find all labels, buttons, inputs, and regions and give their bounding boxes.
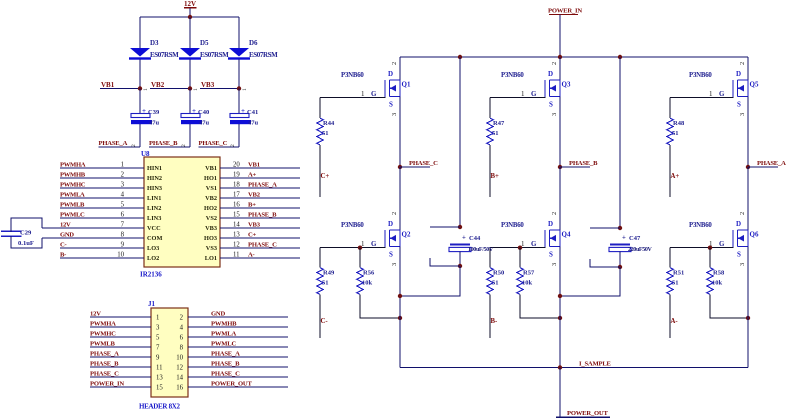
node C47 top junction — [590, 226, 622, 230]
wire — [189, 124, 191, 147]
svg-text:HIN2: HIN2 — [147, 175, 162, 182]
wire — [559, 15, 561, 58]
power port 12V — [184, 0, 197, 8]
svg-text:12V: 12V — [60, 222, 71, 229]
wire — [189, 60, 191, 88]
power port POWER_OUT — [556, 410, 610, 417]
wire source high to phase — [399, 97, 401, 168]
wire — [669, 98, 671, 118]
svg-text:D6: D6 — [249, 39, 258, 47]
svg-text:10: 10 — [176, 355, 183, 362]
wire cap C47 column top — [619, 57, 621, 228]
svg-text:D: D — [736, 220, 741, 228]
resistor R56 10k — [357, 268, 375, 295]
svg-text:8: 8 — [180, 345, 184, 352]
svg-text:PWMLB: PWMLB — [60, 202, 85, 209]
svg-text:C-: C- — [321, 318, 329, 325]
resistor R47 51 — [487, 118, 505, 145]
svg-text:11: 11 — [156, 365, 163, 372]
wire drain high Q1 — [399, 57, 401, 80]
svg-text:G: G — [531, 90, 537, 98]
svg-text:3: 3 — [739, 263, 746, 266]
wire gate high — [490, 97, 546, 99]
svg-text:2: 2 — [230, 144, 236, 147]
wire gate high — [670, 97, 734, 99]
wire — [319, 98, 321, 118]
svg-text:2: 2 — [739, 62, 746, 65]
power port POWER_IN — [548, 8, 582, 15]
node PHASE_C — [199, 140, 240, 147]
svg-text:PWMHC: PWMHC — [90, 331, 116, 338]
svg-text:1: 1 — [242, 88, 248, 91]
svg-text:HEADER 8X2: HEADER 8X2 — [139, 403, 181, 411]
diode D3 — [129, 39, 179, 60]
svg-text:PHASE_A: PHASE_A — [248, 182, 277, 189]
svg-text:11: 11 — [233, 252, 240, 259]
pin 15 net POWER_IN — [90, 381, 163, 392]
svg-text:10k: 10k — [522, 280, 533, 287]
svg-text:P3NB60: P3NB60 — [689, 222, 712, 229]
svg-text:Q1: Q1 — [402, 81, 411, 89]
svg-text:1: 1 — [361, 90, 365, 98]
pin 8 net PWMLC — [180, 341, 288, 352]
svg-text:Q4: Q4 — [562, 231, 571, 239]
svg-text:7: 7 — [156, 345, 160, 352]
svg-text:PHASE_B: PHASE_B — [248, 212, 277, 219]
svg-text:R49: R49 — [323, 270, 335, 277]
wire DC bus rail — [400, 56, 748, 58]
pin 15 VS2 net PHASE_B — [206, 212, 300, 223]
wire 10k to source — [710, 295, 748, 319]
node VB1 — [100, 81, 149, 91]
wire 12V rail — [140, 16, 239, 18]
wire — [319, 295, 321, 339]
wire — [238, 17, 240, 48]
pin 10 net PHASE_A — [176, 351, 288, 362]
svg-text:B+: B+ — [248, 202, 256, 209]
svg-text:LIN3: LIN3 — [147, 215, 161, 222]
pin 16 net POWER_OUT — [176, 381, 288, 392]
svg-text:51: 51 — [672, 130, 679, 137]
svg-text:GND: GND — [211, 311, 225, 318]
resistor R51 51 — [667, 268, 684, 295]
wire C29 to 12V pin — [11, 218, 42, 232]
resistor R57 10k — [517, 268, 535, 295]
wire — [189, 17, 191, 48]
svg-text:G: G — [371, 90, 377, 98]
svg-text:5: 5 — [156, 335, 160, 342]
svg-text:VB3: VB3 — [205, 225, 217, 232]
svg-text:PHASE_C: PHASE_C — [409, 160, 438, 167]
svg-text:2: 2 — [551, 62, 558, 65]
svg-text:B-: B- — [60, 252, 66, 259]
wire — [139, 89, 141, 114]
svg-text:C39: C39 — [148, 109, 160, 116]
svg-text:R51: R51 — [673, 270, 684, 277]
svg-text:+: + — [241, 107, 245, 115]
svg-text:A-: A- — [671, 318, 679, 325]
wire — [319, 248, 321, 268]
node gate low junction — [518, 246, 522, 250]
node VB2 — [150, 81, 199, 91]
svg-text:LO1: LO1 — [205, 255, 217, 262]
resistor R50 51 — [487, 268, 504, 295]
svg-text:12V: 12V — [90, 311, 101, 318]
svg-text:51: 51 — [672, 280, 679, 287]
svg-text:LO3: LO3 — [147, 245, 159, 252]
svg-text:C41: C41 — [247, 109, 258, 116]
pin 5 net PWMHC — [90, 331, 160, 342]
svg-text:1: 1 — [121, 162, 124, 169]
svg-text:D: D — [736, 70, 741, 78]
svg-text:C44: C44 — [469, 235, 481, 242]
pin 3 HIN3 net PWMHC — [60, 182, 162, 193]
svg-text:R57: R57 — [523, 270, 535, 277]
svg-text:PWMHA: PWMHA — [90, 321, 116, 328]
svg-text:B-: B- — [491, 318, 499, 325]
svg-text:P3NB60: P3NB60 — [501, 72, 524, 79]
svg-text:VCC: VCC — [147, 225, 161, 232]
pin 16 HO2 net B+ — [204, 202, 300, 213]
svg-text:P3NB60: P3NB60 — [501, 222, 524, 229]
svg-text:PHASE_A: PHASE_A — [90, 351, 119, 358]
svg-text:G: G — [531, 240, 537, 248]
svg-text:12V: 12V — [184, 0, 196, 8]
wire — [519, 248, 521, 268]
svg-text:R47: R47 — [493, 120, 505, 127]
svg-text:51: 51 — [322, 280, 329, 287]
pin 4 net PWMHB — [180, 321, 288, 332]
capacitor C29 — [1, 230, 34, 248]
svg-text:17: 17 — [233, 192, 240, 199]
svg-text:D3: D3 — [150, 39, 159, 47]
node gate low junction — [708, 246, 712, 250]
svg-text:U8: U8 — [141, 150, 150, 158]
svg-text:R48: R48 — [673, 120, 685, 127]
wire gate low — [320, 247, 386, 249]
wire — [669, 145, 671, 197]
svg-text:R58: R58 — [713, 270, 725, 277]
svg-text:1: 1 — [193, 88, 199, 91]
capacitor C39 — [131, 107, 160, 127]
svg-text:18: 18 — [233, 182, 240, 189]
svg-text:PWMHC: PWMHC — [60, 182, 86, 189]
svg-text:PHASE_C: PHASE_C — [211, 371, 240, 378]
node bus j2 — [558, 55, 562, 59]
pin 14 VB3 net VB3 — [205, 222, 300, 233]
resistor R49 51 — [317, 268, 335, 295]
svg-text:VS3: VS3 — [206, 245, 217, 252]
svg-text:9: 9 — [121, 242, 125, 249]
svg-text:2: 2 — [551, 212, 558, 215]
svg-text:HO3: HO3 — [204, 235, 217, 242]
svg-text:LIN1: LIN1 — [147, 195, 161, 202]
svg-text:S: S — [549, 251, 553, 259]
wire — [669, 248, 671, 268]
svg-text:VS1: VS1 — [206, 185, 217, 192]
transistor Q6 — [689, 212, 759, 266]
pin 7 net PWMLB — [90, 341, 160, 352]
svg-text:C40: C40 — [198, 109, 209, 116]
svg-text:15: 15 — [233, 212, 240, 219]
svg-text:3: 3 — [739, 113, 746, 116]
wire phase to drain low — [399, 167, 401, 230]
pin 11 net PHASE_B — [90, 361, 163, 372]
svg-text:C29: C29 — [20, 230, 32, 237]
wire C47 bottom to Q4 source — [560, 267, 620, 296]
svg-text:S: S — [389, 251, 393, 259]
wire gate low — [490, 247, 546, 249]
svg-text:PWMHA: PWMHA — [60, 162, 86, 169]
svg-text:1: 1 — [156, 315, 159, 322]
svg-text:3: 3 — [391, 113, 398, 116]
svg-text:D: D — [388, 70, 393, 78]
transistor Q5 — [689, 62, 759, 116]
svg-text:A+: A+ — [671, 173, 680, 180]
svg-text:PWMLC: PWMLC — [60, 212, 85, 219]
node — [558, 294, 562, 298]
svg-text:VS2: VS2 — [206, 215, 217, 222]
svg-text:C47: C47 — [629, 235, 641, 242]
svg-text:P3NB60: P3NB60 — [341, 222, 364, 229]
svg-text:100uF/50V: 100uF/50V — [468, 247, 494, 253]
svg-text:3: 3 — [121, 182, 125, 189]
svg-text:LIN2: LIN2 — [147, 205, 161, 212]
node PHASE_A — [99, 140, 141, 147]
op-amp U1 driver IC U8 body — [140, 150, 220, 279]
svg-text:P3NB60: P3NB60 — [689, 72, 712, 79]
svg-text:9: 9 — [156, 355, 160, 362]
svg-text:10: 10 — [117, 252, 124, 259]
pin 8 COM net GND — [42, 232, 162, 243]
node bus j1 — [458, 55, 462, 59]
pin 11 LO1 net A- — [205, 252, 300, 263]
svg-text:B+: B+ — [491, 173, 500, 180]
svg-text:3: 3 — [551, 263, 558, 266]
svg-text:2: 2 — [180, 315, 184, 322]
svg-text:A+: A+ — [248, 172, 257, 179]
svg-text:ES07RSM: ES07RSM — [200, 51, 229, 59]
svg-text:C+: C+ — [321, 173, 330, 180]
resistor R58 10k — [707, 268, 725, 295]
wire source high to phase — [747, 97, 749, 168]
node source junction — [558, 316, 562, 320]
pin 9 net PHASE_A — [90, 351, 160, 362]
svg-text:15: 15 — [156, 385, 163, 392]
svg-text:VB1: VB1 — [101, 81, 115, 89]
wire — [238, 60, 240, 88]
pin 13 net PHASE_C — [90, 371, 163, 382]
svg-text:10k: 10k — [362, 280, 373, 287]
wire phase to drain low — [747, 167, 749, 230]
wire C29 to GND pin — [11, 236, 42, 248]
node source junction — [746, 316, 750, 320]
svg-text:PHASE_A: PHASE_A — [757, 160, 786, 167]
svg-text:2: 2 — [121, 172, 125, 179]
pin 19 HO1 net A+ — [204, 172, 300, 183]
svg-text:HO1: HO1 — [204, 175, 217, 182]
svg-text:0.1uF: 0.1uF — [18, 240, 34, 247]
svg-text:POWER_OUT: POWER_OUT — [567, 410, 608, 417]
resistor R48 51 — [667, 118, 685, 145]
svg-text:1: 1 — [521, 90, 525, 98]
svg-text:VB2: VB2 — [151, 81, 165, 89]
svg-text:4: 4 — [180, 325, 184, 332]
pin 4 LIN1 net PWMLA — [60, 192, 161, 203]
svg-text:1: 1 — [709, 90, 713, 98]
pin 2 HIN2 net PWMHB — [60, 172, 162, 183]
transistor Q2 — [341, 212, 411, 266]
wire — [559, 368, 561, 418]
node — [398, 294, 402, 298]
svg-text:VB3: VB3 — [248, 222, 261, 229]
svg-text:12: 12 — [233, 242, 240, 249]
node rail junction — [558, 365, 562, 369]
wire cap C44 column top — [459, 57, 461, 227]
wire I_SAMPLE rail — [400, 367, 748, 369]
svg-text:3: 3 — [156, 325, 160, 332]
pin 5 LIN2 net PWMLB — [60, 202, 161, 213]
svg-text:J1: J1 — [148, 300, 156, 308]
wire 10k to source — [520, 295, 560, 319]
svg-text:51: 51 — [492, 130, 499, 137]
wire 10k to source — [360, 295, 400, 319]
wire source low down — [559, 247, 561, 368]
svg-text:D5: D5 — [200, 39, 209, 47]
svg-text:P3NB60: P3NB60 — [341, 72, 364, 79]
svg-text:220uF50V: 220uF50V — [628, 247, 653, 253]
wire — [489, 145, 491, 197]
pin 2 net GND — [180, 311, 288, 322]
svg-text:G: G — [371, 240, 377, 248]
svg-text:G: G — [719, 240, 725, 248]
svg-text:3: 3 — [551, 113, 558, 116]
svg-text:S: S — [389, 101, 393, 109]
svg-text:VB1: VB1 — [248, 162, 260, 169]
svg-text:PWMLC: PWMLC — [211, 341, 236, 348]
svg-text:C-: C- — [60, 242, 66, 249]
wire — [189, 8, 191, 17]
svg-text:Q6: Q6 — [750, 231, 759, 239]
svg-text:Q2: Q2 — [402, 231, 411, 239]
node C44 bottom junction — [430, 258, 462, 268]
pin 12 VS3 net PHASE_C — [206, 242, 300, 253]
svg-text:R44: R44 — [323, 120, 335, 127]
diode D6 — [228, 39, 278, 60]
pin 10 LO2 net B- — [60, 252, 159, 263]
wire source low down — [399, 247, 401, 368]
svg-text:R50: R50 — [493, 270, 504, 277]
pin 6 LIN3 net PWMLC — [60, 212, 161, 223]
svg-text:Q3: Q3 — [562, 81, 571, 89]
diode D5 — [179, 39, 229, 60]
svg-text:PWMHB: PWMHB — [211, 321, 237, 328]
pin 3 net PWMHA — [90, 321, 160, 332]
wire — [489, 295, 491, 339]
wire gate high — [320, 97, 386, 99]
svg-text:R56: R56 — [363, 270, 375, 277]
svg-text:2: 2 — [391, 212, 398, 215]
node VB3 — [200, 81, 248, 91]
node 12V rail junction — [188, 15, 192, 19]
node PHASE_A junction — [746, 160, 786, 169]
svg-text:+: + — [622, 235, 626, 242]
wire — [189, 89, 191, 114]
svg-text:14: 14 — [233, 222, 240, 229]
wire drain high Q5 — [747, 57, 749, 80]
svg-text:2: 2 — [181, 144, 187, 147]
svg-text:LO2: LO2 — [147, 255, 159, 262]
svg-text:7: 7 — [121, 222, 125, 229]
svg-text:S: S — [549, 101, 553, 109]
capacitor C40 — [181, 107, 210, 127]
wire — [669, 295, 671, 339]
svg-text:POWER_IN: POWER_IN — [548, 8, 582, 15]
svg-text:VB3: VB3 — [201, 81, 215, 89]
wire drain high Q3 — [559, 57, 561, 80]
wire — [459, 252, 461, 266]
svg-text:VB2: VB2 — [248, 192, 261, 199]
wire — [139, 60, 141, 88]
svg-text:PHASE_C: PHASE_C — [248, 242, 277, 249]
wire — [238, 124, 240, 147]
svg-text:HO2: HO2 — [204, 205, 217, 212]
capacitor C47 — [609, 235, 653, 254]
node PHASE_B junction — [558, 160, 598, 169]
svg-text:16: 16 — [233, 202, 240, 209]
svg-text:+: + — [462, 235, 466, 242]
svg-text:3: 3 — [391, 263, 398, 266]
svg-text:47u: 47u — [199, 120, 210, 127]
pin 12 net PHASE_B — [176, 361, 288, 372]
svg-text:PWMLA: PWMLA — [60, 192, 85, 199]
pin 1 HIN1 net PWMHA — [60, 162, 162, 173]
node C47 bottom junction — [590, 259, 622, 269]
svg-text:+: + — [142, 107, 146, 115]
pin 7 VCC net 12V — [42, 222, 161, 233]
svg-text:POWER_IN: POWER_IN — [90, 381, 124, 388]
svg-text:PWMHB: PWMHB — [60, 172, 86, 179]
svg-text:51: 51 — [492, 280, 499, 287]
svg-text:D: D — [548, 70, 553, 78]
transistor Q4 — [501, 212, 571, 266]
svg-text:GND: GND — [60, 232, 74, 239]
svg-text:VB1: VB1 — [205, 165, 217, 172]
svg-text:PHASE_B: PHASE_B — [90, 361, 119, 368]
svg-text:+: + — [192, 107, 196, 115]
svg-text:51: 51 — [322, 130, 329, 137]
pin 9 LO3 net C- — [60, 242, 159, 253]
svg-text:ES07RSM: ES07RSM — [249, 51, 278, 59]
capacitor C41 — [230, 107, 259, 127]
node bus j3 — [618, 55, 622, 59]
svg-text:1: 1 — [143, 88, 149, 91]
svg-text:6: 6 — [121, 212, 125, 219]
svg-text:47u: 47u — [248, 120, 259, 127]
pin 18 VS1 net PHASE_A — [206, 182, 300, 193]
svg-text:19: 19 — [233, 172, 240, 179]
wire phase to drain low — [559, 167, 561, 230]
pin 6 net PWMLA — [180, 331, 288, 342]
wire C44 bottom to Q2 source — [400, 266, 460, 296]
node PHASE_C junction — [398, 160, 438, 169]
wire source high to phase — [559, 97, 561, 168]
wire gate low — [670, 247, 734, 249]
svg-text:PWMLB: PWMLB — [90, 341, 115, 348]
transistor Q1 — [341, 62, 411, 116]
wire — [319, 145, 321, 197]
svg-text:COM: COM — [147, 235, 162, 242]
